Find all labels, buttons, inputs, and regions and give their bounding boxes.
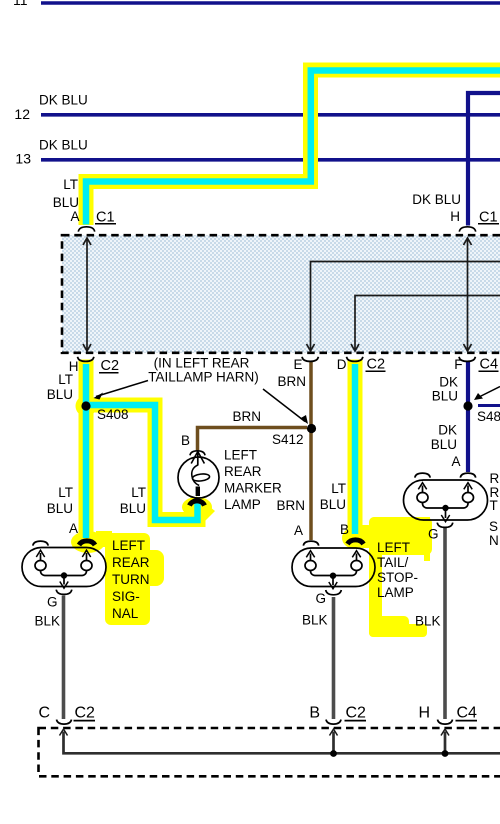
svg-text:BLU: BLU [431,437,457,452]
svg-text:LEFT: LEFT [377,540,410,555]
svg-text:BLU: BLU [432,389,458,404]
svg-text:C2: C2 [75,705,96,722]
svg-text:DK: DK [438,423,457,438]
svg-text:LEFT: LEFT [224,448,257,463]
svg-text:C4: C4 [457,705,478,722]
svg-text:T: T [490,498,498,513]
svg-text:SIG-: SIG- [112,589,140,604]
svg-text:C: C [38,705,50,722]
svg-text:S408: S408 [97,407,129,422]
svg-text:DK BLU: DK BLU [39,138,88,153]
svg-text:BLU: BLU [47,387,73,402]
svg-text:REAR: REAR [112,555,150,570]
svg-text:TAILLAMP HARN): TAILLAMP HARN) [148,370,259,385]
svg-text:E: E [293,357,302,372]
svg-text:B: B [340,522,349,537]
svg-text:C2: C2 [346,705,367,722]
svg-text:DK BLU: DK BLU [39,93,88,108]
svg-text:BRN: BRN [276,498,305,513]
svg-text:C2: C2 [367,357,386,373]
svg-text:BLK: BLK [34,614,60,629]
svg-text:REAR: REAR [224,464,262,479]
svg-text:C2: C2 [101,358,120,374]
svg-text:BLU: BLU [120,501,146,516]
svg-text:G: G [47,595,58,610]
svg-text:F: F [454,357,462,372]
svg-text:BRN: BRN [277,374,306,389]
svg-text:STOP-: STOP- [377,570,418,585]
svg-text:R: R [490,471,500,486]
svg-text:LT: LT [58,372,73,387]
svg-text:D: D [337,357,347,372]
svg-text:B: B [309,705,320,722]
svg-text:BLK: BLK [415,614,441,629]
svg-text:LT: LT [331,481,346,496]
svg-text:MARKER: MARKER [224,481,282,496]
svg-text:BRN: BRN [232,409,261,424]
svg-text:G: G [315,591,326,606]
svg-text:LEFT: LEFT [112,538,145,553]
svg-text:S: S [489,519,498,534]
svg-text:LAMP: LAMP [224,497,261,512]
svg-text:H: H [450,209,460,224]
svg-text:B: B [181,433,190,448]
svg-text:S412: S412 [272,432,304,447]
svg-text:A: A [69,521,78,536]
svg-text:TURN: TURN [112,572,150,587]
svg-text:LT: LT [131,485,146,500]
svg-text:G: G [428,527,439,542]
svg-text:BLU: BLU [53,195,79,210]
svg-text:13: 13 [15,151,31,167]
svg-text:S48: S48 [477,409,500,424]
svg-text:BLU: BLU [320,497,346,512]
svg-text:LAMP: LAMP [377,585,414,600]
svg-text:TAIL/: TAIL/ [377,555,409,570]
svg-text:DK: DK [439,375,458,390]
svg-text:A: A [70,209,79,224]
svg-text:A: A [451,454,460,469]
svg-text:12: 12 [14,106,30,122]
svg-text:BLK: BLK [302,613,328,628]
svg-text:11: 11 [13,0,28,8]
svg-text:LT: LT [63,177,78,192]
svg-text:C4: C4 [480,357,499,373]
svg-text:H: H [418,705,430,722]
svg-text:DK BLU: DK BLU [412,192,461,207]
svg-text:N: N [489,533,499,548]
svg-text:LT: LT [58,485,73,500]
svg-text:(IN LEFT REAR: (IN LEFT REAR [154,356,250,371]
svg-text:A: A [294,523,303,538]
svg-text:NAL: NAL [112,606,139,621]
svg-text:BLU: BLU [47,501,73,516]
